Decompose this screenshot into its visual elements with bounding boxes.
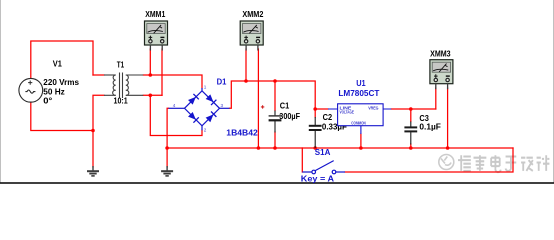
svg-text:4: 4: [173, 103, 176, 108]
svg-text:C1: C1: [280, 101, 290, 111]
svg-text:COMMON: COMMON: [351, 121, 366, 126]
svg-text:300µF: 300µF: [279, 111, 300, 121]
svg-text:V1: V1: [53, 59, 62, 69]
svg-text:10:1: 10:1: [114, 95, 128, 105]
svg-text:U1: U1: [356, 78, 366, 88]
svg-text:D1: D1: [217, 77, 227, 87]
svg-text:XMM1: XMM1: [145, 9, 165, 19]
svg-text:220 Vrms: 220 Vrms: [43, 77, 79, 87]
svg-text:C2: C2: [323, 112, 333, 122]
svg-text:XMM2: XMM2: [242, 9, 263, 19]
svg-text:0°: 0°: [43, 96, 53, 106]
svg-text:XMM3: XMM3: [430, 48, 451, 58]
svg-text:0.1µF: 0.1µF: [419, 121, 441, 131]
svg-text:3: 3: [221, 103, 224, 108]
svg-text:2: 2: [204, 128, 207, 133]
svg-text:LM7805CT: LM7805CT: [338, 88, 380, 98]
svg-text:VREG: VREG: [368, 105, 379, 110]
svg-text:VOLTAGE: VOLTAGE: [340, 109, 355, 114]
svg-text:1B4B42: 1B4B42: [226, 128, 258, 138]
svg-text:T1: T1: [117, 59, 125, 69]
svg-text:S1A: S1A: [315, 147, 331, 157]
svg-text:Key = A: Key = A: [301, 174, 334, 184]
svg-text:1: 1: [204, 85, 207, 90]
